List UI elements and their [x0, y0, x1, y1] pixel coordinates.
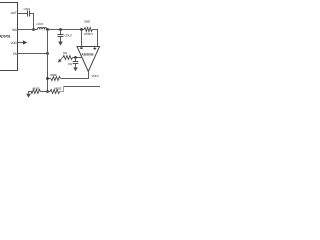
- VDD pin input arrow: [18, 40, 28, 44]
- ground arrow below CG: [73, 64, 78, 72]
- resistor RFB2 (left of node, to ground): [31, 90, 41, 94]
- node junction at (33,29): [32, 28, 35, 31]
- svg-text:VDD: VDD: [11, 41, 18, 45]
- svg-text:RREF: RREF: [50, 73, 57, 77]
- capacitor CAV1: [28, 11, 30, 17]
- capacitor COUT: [58, 35, 64, 37]
- svg-text:RFB2: RFB2: [33, 87, 40, 91]
- wire FB pin to feedback divider node: [18, 53, 48, 55]
- wire OUT pin to capacitor CAV1: [18, 13, 28, 15]
- wire RFB2 to node: [41, 91, 48, 93]
- resistor RFB1 (top right, series in feedback): [84, 28, 93, 32]
- svg-text:LOUT: LOUT: [37, 22, 44, 26]
- svg-text:VOUT: VOUT: [92, 74, 100, 78]
- inductor LOUT: [38, 28, 47, 30]
- svg-text:RFB3: RFB3: [55, 87, 62, 91]
- op-amp plus input mark: [93, 47, 96, 50]
- capacitor COUT branch wire: [60, 30, 62, 35]
- svg-text:RHART: RHART: [84, 32, 93, 36]
- wire RFB1 to op-amp top edge: [93, 30, 98, 47]
- node junction at (47,78.5): [46, 77, 49, 80]
- capacitor CG: [73, 62, 79, 64]
- op-amp minus input mark: [80, 47, 82, 49]
- wire RFB3 up to load rail: [60, 87, 64, 92]
- wire RG to op-amp left slant: [73, 57, 83, 59]
- resistor RREF (output to divider): [51, 77, 61, 81]
- ground arrow at RG input (diagonal): [58, 57, 63, 63]
- wire SW pin to inductor LOUT: [18, 29, 38, 31]
- wire inductor LOUT to feedback resistor, main output net: [47, 29, 84, 31]
- IC U1 (regulator block, cropped at left edge): [0, 3, 18, 71]
- resistor RFB3 (right of node): [50, 90, 60, 94]
- wire op-amp output down and left: [61, 72, 89, 79]
- svg-text:SW: SW: [12, 28, 17, 32]
- node junction at (60,29): [59, 28, 62, 31]
- wire feedback vertical net x=47: [47, 30, 49, 92]
- svg-text:CAV1: CAV1: [24, 7, 31, 11]
- svg-text:COUT: COUT: [65, 33, 73, 37]
- wire capacitor CAV1 to corner, down to SW net: [30, 14, 34, 30]
- op-amp U2 (triangle pointing down): [77, 47, 100, 72]
- wire op-amp inverting input up to output net: [81, 30, 83, 47]
- wire RREF to node: [48, 78, 51, 80]
- wire load rail to right edge: [64, 86, 101, 88]
- svg-text:AD5751: AD5751: [0, 35, 11, 39]
- node junction at (47,91.5): [46, 90, 49, 93]
- node junction at (47,29): [46, 28, 49, 31]
- node junction at (75,57.5): [74, 56, 77, 59]
- ground arrow below RFB2: [26, 94, 31, 98]
- svg-text:FB: FB: [13, 52, 17, 56]
- node junction at (47,53): [46, 52, 49, 55]
- ground arrow below COUT: [58, 37, 63, 46]
- wire RFB2 left to ground: [29, 92, 33, 94]
- resistor RG (non-inverting input): [63, 56, 73, 60]
- svg-text:OUT: OUT: [11, 11, 17, 15]
- svg-text:AD8605: AD8605: [82, 52, 94, 56]
- wire node to RFB3: [48, 91, 51, 93]
- node junction at (81,29): [80, 28, 83, 31]
- capacitor CG branch: [75, 58, 77, 62]
